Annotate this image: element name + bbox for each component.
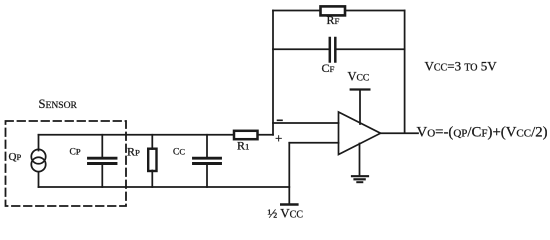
wire RP bottom — [151, 171, 153, 188]
sensor dashed box — [6, 121, 127, 206]
svg-text:QP: QP — [9, 151, 22, 163]
wire CP bottom — [101, 165, 103, 187]
svg-text:SENSOR: SENSOR — [39, 97, 78, 111]
wire non-inverting to half-vcc — [288, 143, 290, 204]
svg-text:CF: CF — [322, 61, 335, 75]
svg-text:+: + — [275, 131, 282, 146]
wire CF right — [337, 48, 405, 50]
wire top feedback — [273, 10, 405, 12]
capacitor CC plates — [194, 157, 221, 160]
capacitor CP plates — [89, 157, 117, 160]
minus sign at inverting input — [278, 119, 283, 121]
svg-text:VCC: VCC — [348, 70, 370, 84]
resistor RF body — [321, 6, 346, 15]
wire bottom rail — [39, 186, 290, 188]
wire CC bottom — [206, 165, 208, 187]
wire CP top — [101, 135, 103, 157]
svg-text:RF: RF — [327, 13, 340, 27]
half VCC bar — [281, 203, 297, 206]
wire inverting input — [273, 122, 339, 124]
wire CC top — [206, 135, 208, 157]
resistor R1 body — [234, 131, 258, 139]
svg-text:CC: CC — [173, 147, 185, 158]
wire VCC supply — [359, 90, 361, 124]
svg-text:CP: CP — [70, 147, 81, 158]
capacitor CF plates — [329, 38, 332, 62]
wire ground — [359, 144, 361, 176]
svg-text:VO=-(QP/CF)+(VCC/2): VO=-(QP/CF)+(VCC/2) — [417, 124, 548, 140]
resistor RP body — [148, 149, 156, 171]
op-amp U1 triangle — [339, 112, 381, 155]
wire non-inverting input — [289, 142, 338, 144]
svg-text:R1: R1 — [237, 139, 249, 153]
VCC supply T-bar — [351, 88, 370, 90]
wire top rail — [39, 134, 274, 136]
wire RP top — [151, 135, 153, 149]
wire right feedback vertical — [404, 11, 406, 134]
ground symbol — [352, 175, 368, 177]
wire QP top — [38, 135, 40, 151]
wire QP bottom — [38, 172, 40, 187]
source QP (two overlapping circles) — [31, 149, 45, 163]
wire output — [381, 132, 419, 134]
wire CF left — [273, 48, 328, 50]
svg-text:RP: RP — [127, 145, 140, 159]
wire left feedback vertical — [272, 11, 274, 135]
